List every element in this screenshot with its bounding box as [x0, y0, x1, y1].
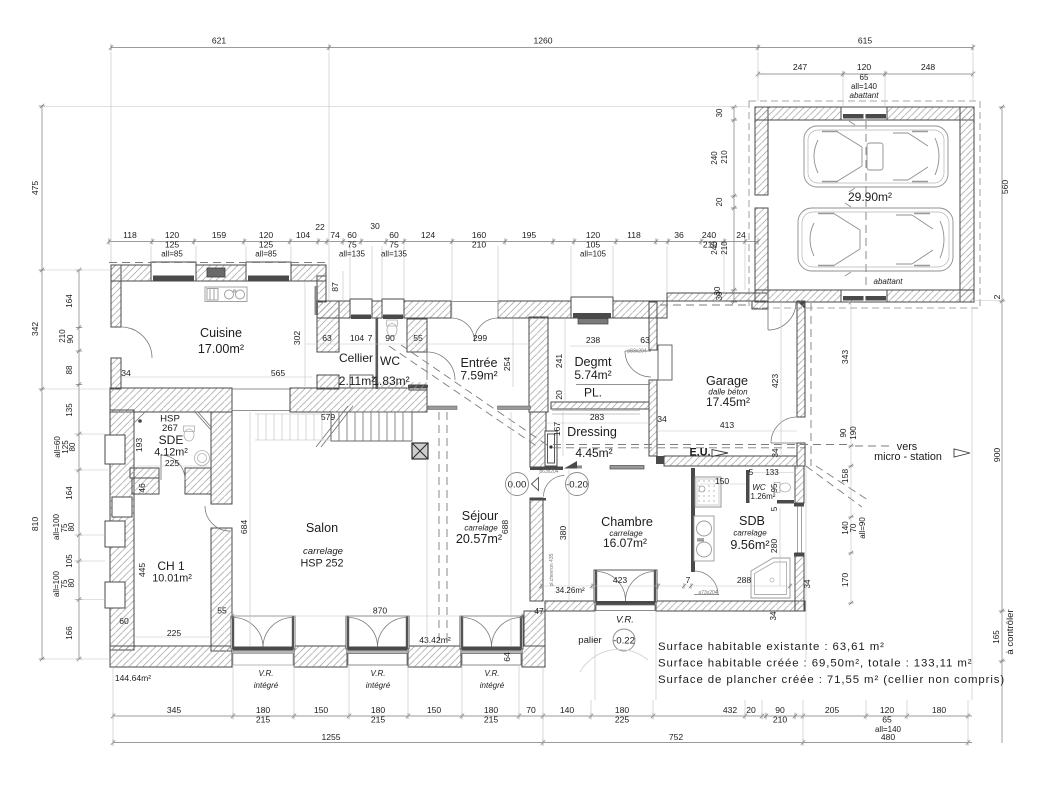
svg-text:20: 20 [715, 197, 724, 206]
north band segment f [613, 301, 667, 318]
PL band [551, 402, 649, 409]
svg-text:all=85: all=85 [255, 250, 277, 259]
svg-text:125: 125 [165, 240, 180, 250]
niche west 4 [105, 582, 125, 608]
window sejour box [460, 616, 523, 649]
svg-text:240: 240 [702, 230, 717, 240]
svg-text:180: 180 [615, 705, 630, 715]
svg-text:0.00: 0.00 [508, 480, 527, 491]
EU arrow [712, 450, 728, 457]
svg-text:20: 20 [554, 390, 564, 400]
sdb door arc [694, 571, 718, 595]
svg-text:180: 180 [932, 705, 947, 715]
svg-text:65: 65 [882, 715, 892, 725]
svg-text:34: 34 [803, 579, 812, 588]
svg-text:160: 160 [472, 230, 487, 240]
svg-text:55: 55 [413, 333, 423, 343]
svg-text:135: 135 [65, 403, 74, 417]
svg-text:241: 241 [554, 354, 564, 369]
window kitchen north 1 [151, 262, 196, 281]
window chambre casement arcs [596, 572, 626, 602]
svg-text:30: 30 [370, 221, 380, 231]
sde corner cut [195, 412, 211, 430]
svg-text:810: 810 [30, 517, 40, 532]
svg-text:120: 120 [165, 230, 180, 240]
degmt closet [658, 345, 672, 380]
svg-text:87: 87 [330, 282, 340, 292]
svg-text:Dressing: Dressing [567, 425, 617, 439]
svg-text:30: 30 [713, 286, 722, 295]
sdb east wall lower [795, 553, 804, 611]
svg-text:7.59m²: 7.59m² [460, 369, 497, 383]
EU dashed lines [553, 444, 850, 446]
svg-text:870: 870 [373, 606, 388, 616]
svg-text:Séjour: Séjour [462, 509, 498, 523]
svg-text:20.57m²: 20.57m² [456, 532, 502, 546]
window chambre VR box and bay [596, 601, 655, 605]
svg-text:125: 125 [259, 240, 274, 250]
south wall piece 3 [408, 646, 461, 667]
svg-text:74: 74 [330, 230, 340, 240]
svg-text:210: 210 [472, 240, 487, 250]
svg-text:104: 104 [350, 333, 365, 343]
svg-text:17.45m²: 17.45m² [706, 395, 750, 409]
carport dashed outline [749, 101, 980, 308]
dimension line bottom row1 [113, 715, 972, 717]
svg-text:Degmt: Degmt [574, 355, 612, 369]
sewer dashed diagonals [806, 466, 862, 507]
svg-text:900: 900 [992, 448, 1002, 463]
svg-text:165: 165 [992, 630, 1001, 644]
chambre west wall [530, 498, 543, 601]
svg-text:752: 752 [669, 732, 684, 742]
lintel bar entree left [428, 406, 457, 410]
dressing west column [529, 317, 548, 412]
svg-text:intégré: intégré [254, 681, 279, 690]
wc band strip [378, 382, 427, 389]
svg-text:34: 34 [771, 448, 780, 457]
svg-text:684: 684 [239, 520, 249, 535]
svg-text:-0.22: -0.22 [613, 636, 635, 647]
window salon 2 casement arcs [348, 618, 378, 647]
svg-text:47: 47 [534, 606, 544, 616]
ext line 2cm [974, 300, 1002, 302]
svg-text:615: 615 [858, 36, 873, 46]
dressing door swing flag [564, 461, 577, 469]
window sejour VR box and bay [462, 647, 521, 651]
car 2 wheels [818, 214, 930, 266]
svg-text:70: 70 [849, 523, 858, 532]
sdb double sink [694, 516, 714, 561]
wall kitchen north [111, 265, 151, 281]
svg-text:105: 105 [586, 240, 601, 250]
dimension line left outer [41, 106, 43, 659]
middle band notch [317, 375, 339, 389]
sdb wc toilet [774, 483, 791, 493]
svg-text:120: 120 [880, 705, 895, 715]
svg-text:all=135: all=135 [339, 250, 366, 259]
svg-text:a73x204: a73x204 [698, 590, 717, 596]
svg-text:carrelage: carrelage [303, 546, 343, 557]
south jog wall [524, 611, 545, 646]
wall degmt east [649, 302, 657, 350]
svg-text:75: 75 [347, 240, 357, 250]
svg-text:118: 118 [123, 230, 137, 240]
svg-text:V.R.: V.R. [616, 615, 634, 626]
chambre south wall e [656, 601, 805, 611]
dark jamb garage NE [797, 301, 805, 309]
dimension line bottom row2 [113, 742, 972, 744]
stairs [316, 406, 412, 447]
svg-text:210: 210 [58, 329, 67, 343]
svg-text:342: 342 [30, 322, 40, 337]
carport wall top [755, 107, 974, 120]
lintel bar entree right [498, 406, 531, 410]
svg-text:Salon: Salon [306, 521, 338, 535]
sdb east window [797, 507, 799, 554]
PL line [576, 384, 649, 386]
svg-text:29.90m²: 29.90m² [848, 190, 892, 204]
window sejour casement arcs [462, 618, 492, 647]
svg-text:95: 95 [770, 483, 779, 492]
svg-text:150: 150 [314, 705, 329, 715]
band SDE/CH1 left [130, 468, 159, 478]
svg-text:Surface habitable existante :: Surface habitable existante : 63,61 m² [658, 641, 885, 653]
svg-text:688: 688 [500, 520, 510, 535]
hall door leaf open [610, 466, 644, 470]
svg-text:4.45m²: 4.45m² [575, 446, 612, 460]
middle band west part [110, 388, 232, 412]
svg-text:75: 75 [60, 579, 69, 588]
carport window top [841, 107, 887, 120]
dimension line carport left [733, 107, 735, 302]
svg-text:intégré: intégré [480, 681, 505, 690]
svg-text:167: 167 [552, 422, 562, 437]
dimension line right [1001, 107, 1003, 743]
svg-text:60: 60 [347, 230, 357, 240]
sdb corner bath [751, 558, 790, 598]
svg-text:215: 215 [256, 715, 271, 725]
middle band east part [290, 388, 427, 412]
wc east wall [407, 319, 427, 352]
car 1 wheels [822, 132, 928, 182]
svg-text:all=85: all=85 [161, 250, 183, 259]
svg-text:480: 480 [881, 732, 896, 742]
chambre south wall w [545, 601, 595, 611]
svg-text:V.R.: V.R. [259, 669, 274, 678]
window kitchen north 2 [246, 262, 291, 281]
carport connect dashed [660, 304, 752, 306]
svg-text:193: 193 [134, 438, 144, 453]
svg-text:34.26m²: 34.26m² [555, 586, 585, 595]
svg-text:120: 120 [586, 230, 601, 240]
extension lines [46, 52, 973, 746]
svg-text:565: 565 [271, 368, 286, 378]
svg-text:34: 34 [121, 368, 131, 378]
window chambre box [594, 570, 657, 602]
svg-text:2: 2 [992, 294, 1002, 299]
carport window bottom [841, 290, 887, 302]
carport axis dashed [865, 121, 867, 289]
window degmt all=105 [571, 297, 613, 318]
svg-text:254: 254 [502, 357, 512, 372]
svg-text:all=100: all=100 [52, 570, 61, 597]
dimension line carport top [758, 73, 973, 75]
window salon 1 casement arcs [233, 618, 263, 647]
svg-text:423: 423 [770, 374, 780, 389]
svg-text:288: 288 [737, 575, 752, 585]
svg-text:all=100: all=100 [52, 513, 61, 540]
entrance double door arcs [451, 318, 475, 342]
svg-text:215: 215 [484, 715, 499, 725]
dimension line house top row [109, 241, 758, 243]
niche west 1 [105, 435, 125, 464]
garage east door arc [771, 417, 797, 443]
car 1 [804, 121, 948, 192]
north band segment a [317, 301, 350, 318]
svg-text:p83x204: p83x204 [627, 349, 646, 355]
svg-text:SDE: SDE [159, 433, 184, 447]
wall kitchen east [317, 276, 326, 302]
svg-text:190: 190 [849, 426, 858, 440]
svg-text:36: 36 [674, 230, 684, 240]
wc partition sdb [746, 470, 750, 503]
svg-text:4.12m²: 4.12m² [154, 447, 188, 459]
kitchen sink [205, 287, 247, 302]
svg-text:20: 20 [746, 705, 756, 715]
svg-text:palier: palier [578, 635, 602, 646]
svg-text:all=90: all=90 [858, 517, 867, 539]
wall garage east lower [797, 443, 805, 466]
svg-text:all=105: all=105 [580, 250, 607, 259]
svg-text:302: 302 [292, 331, 302, 346]
svg-text:pl.chevron 435: pl.chevron 435 [549, 553, 555, 586]
window cellier [350, 299, 372, 317]
svg-text:60: 60 [389, 230, 399, 240]
svg-text:p63x204: p63x204 [539, 469, 558, 475]
svg-text:210: 210 [720, 150, 729, 164]
svg-text:55: 55 [217, 606, 227, 616]
svg-text:5: 5 [749, 468, 754, 477]
cellier niche [350, 375, 373, 388]
west old wall [110, 410, 134, 650]
svg-text:Surface de plancher créée : 71: Surface de plancher créée : 71,55 m² (ce… [658, 674, 1005, 686]
svg-text:299: 299 [473, 333, 488, 343]
svg-text:22: 22 [315, 222, 325, 232]
svg-text:144.64m²: 144.64m² [115, 673, 151, 683]
svg-text:240: 240 [710, 151, 719, 165]
svg-text:Cellier: Cellier [339, 351, 373, 365]
svg-text:215: 215 [371, 715, 386, 725]
svg-text:à contrôler: à contrôler [1005, 609, 1016, 655]
svg-text:all=60: all=60 [53, 436, 62, 458]
svg-text:247: 247 [793, 62, 808, 72]
svg-text:225: 225 [167, 628, 182, 638]
car 2 [798, 203, 953, 276]
svg-text:621: 621 [212, 36, 227, 46]
svg-text:88: 88 [65, 365, 74, 374]
svg-text:16.07m²: 16.07m² [603, 536, 647, 550]
entree ramp dashed diagonals [389, 346, 538, 447]
0.00 level mark [506, 473, 539, 496]
svg-text:180: 180 [371, 705, 386, 715]
window wc [382, 299, 404, 317]
x-box poteau [412, 443, 428, 459]
sde toilet [184, 426, 195, 441]
dark band top right [408, 385, 428, 388]
svg-text:140: 140 [560, 705, 575, 715]
svg-text:70: 70 [526, 705, 536, 715]
window salon 1 VR box and bay [233, 647, 293, 651]
svg-text:475: 475 [30, 181, 40, 196]
svg-text:150: 150 [715, 476, 730, 486]
svg-text:283: 283 [590, 412, 605, 422]
pocket door dressing [545, 431, 557, 466]
svg-text:64: 64 [502, 652, 512, 662]
niche west 2 [112, 497, 132, 517]
svg-text:SDB: SDB [739, 514, 765, 528]
svg-text:V.R.: V.R. [485, 669, 500, 678]
niche west 3 [105, 521, 125, 547]
svg-text:345: 345 [167, 705, 182, 715]
svg-text:90: 90 [66, 334, 75, 343]
svg-text:5: 5 [770, 506, 779, 511]
chambre/sdb partition [691, 468, 695, 572]
svg-text:432: 432 [723, 705, 738, 715]
sde door arc [160, 455, 185, 480]
svg-text:V.R.: V.R. [371, 669, 386, 678]
svg-text:1260: 1260 [533, 36, 552, 46]
svg-text:all=140: all=140 [851, 82, 878, 91]
svg-text:60: 60 [119, 616, 129, 626]
svg-text:164: 164 [65, 294, 74, 308]
svg-text:90: 90 [839, 428, 848, 437]
svg-text:210: 210 [773, 715, 788, 725]
svg-text:118: 118 [627, 230, 641, 240]
opening salon-cuisine lintel [232, 388, 290, 390]
garage north door arc [768, 302, 796, 330]
svg-text:104: 104 [296, 230, 311, 240]
svg-text:17.00m²: 17.00m² [198, 342, 244, 356]
south wall piece 4 [522, 646, 545, 667]
window salon 2 VR box and bay [348, 647, 407, 651]
svg-text:carrelage: carrelage [733, 529, 767, 538]
svg-text:9.56m²: 9.56m² [730, 538, 769, 552]
north band segment d [498, 301, 571, 318]
svg-text:PL.: PL. [584, 386, 602, 400]
svg-text:90: 90 [385, 333, 395, 343]
svg-text:75: 75 [60, 523, 69, 532]
svg-text:65: 65 [860, 73, 869, 82]
svg-text:158: 158 [840, 469, 850, 484]
svg-text:intégré: intégré [366, 681, 391, 690]
light ext line from poteau [426, 459, 428, 646]
svg-text:E.U.: E.U. [690, 447, 711, 459]
svg-text:125: 125 [61, 440, 70, 454]
wc toilet [387, 320, 398, 337]
svg-text:HSP 252: HSP 252 [300, 558, 343, 570]
svg-text:5.74m²: 5.74m² [574, 368, 611, 382]
carport wall right [960, 107, 974, 302]
wall kitchen west [111, 265, 121, 327]
svg-text:164: 164 [65, 486, 74, 500]
svg-text:Cuisine: Cuisine [200, 326, 242, 340]
radiator degmt [578, 319, 608, 325]
svg-text:63: 63 [640, 335, 650, 345]
garage dashed vertical [810, 303, 812, 466]
degmt door arc [625, 351, 651, 377]
svg-text:abattant: abattant [874, 277, 904, 286]
EU wall [664, 456, 797, 466]
svg-text:133: 133 [765, 468, 779, 477]
window salon 1 box [231, 616, 295, 649]
wc partition cellier [376, 318, 379, 389]
band SDE/CH1 right [185, 468, 211, 494]
svg-text:120: 120 [857, 62, 872, 72]
wc door arc [427, 352, 455, 380]
svg-text:280: 280 [769, 539, 779, 554]
svg-text:-0.20: -0.20 [566, 480, 588, 491]
svg-text:170: 170 [840, 573, 850, 588]
svg-text:1255: 1255 [321, 732, 340, 742]
svg-text:micro - station: micro - station [874, 451, 942, 463]
kitchen wall unit [207, 268, 225, 277]
svg-text:34: 34 [657, 414, 667, 424]
micro-station arrow [954, 449, 970, 457]
svg-text:Surface habitable créée : 69,5: Surface habitable créée : 69,50m², total… [658, 658, 972, 670]
svg-text:WC: WC [752, 483, 766, 492]
svg-text:Chambre: Chambre [601, 515, 653, 529]
svg-text:225: 225 [615, 715, 630, 725]
svg-text:63: 63 [322, 333, 332, 343]
svg-text:7: 7 [368, 333, 373, 343]
svg-text:380: 380 [558, 526, 568, 541]
svg-text:180: 180 [484, 705, 499, 715]
svg-text:abattant: abattant [850, 91, 880, 100]
north band segment c [404, 301, 451, 318]
svg-text:124: 124 [421, 230, 436, 240]
sdb shower [695, 477, 721, 507]
wall column SDE/salon [211, 412, 232, 504]
svg-text:238: 238 [586, 335, 601, 345]
svg-text:159: 159 [212, 230, 227, 240]
dimension line overall top [111, 47, 973, 49]
svg-text:24: 24 [736, 230, 746, 240]
svg-text:240: 240 [710, 241, 719, 255]
svg-text:343: 343 [840, 350, 850, 365]
south wall piece 2 [294, 646, 347, 667]
CH1 left-top block [132, 478, 159, 494]
-0.22 level mark palier [580, 629, 648, 672]
svg-text:166: 166 [65, 626, 74, 640]
svg-text:205: 205 [825, 705, 840, 715]
ch1 door arc [205, 506, 230, 531]
dressing closet lines [552, 410, 640, 412]
window salon 2 box [346, 616, 409, 649]
sde basin [195, 451, 210, 466]
svg-text:90: 90 [775, 705, 785, 715]
svg-text:105: 105 [65, 554, 74, 568]
carport wall left [755, 107, 768, 195]
svg-text:46: 46 [137, 483, 147, 493]
sdb east wall upper [795, 466, 804, 503]
svg-text:30: 30 [715, 108, 724, 117]
sde corner shelf [133, 412, 145, 424]
svg-text:WC: WC [380, 354, 400, 368]
svg-text:Garage: Garage [706, 374, 748, 388]
svg-text:150: 150 [427, 705, 442, 715]
-0.20 level mark [566, 473, 589, 496]
